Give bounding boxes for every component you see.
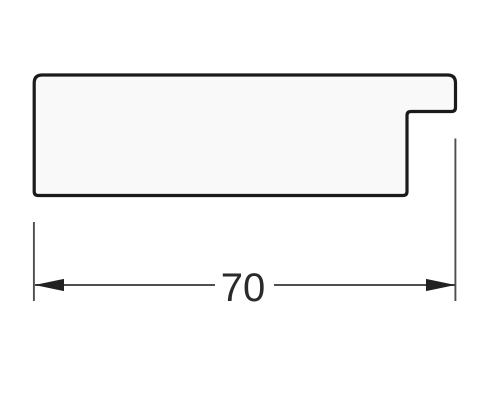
svg-text:70: 70 <box>221 266 266 310</box>
dimension line left segment <box>35 284 215 286</box>
dimension line right segment <box>274 284 455 286</box>
left extension line <box>33 222 35 301</box>
moulding profile cross-section outline <box>34 75 455 196</box>
right arrowhead <box>426 279 455 291</box>
right extension line <box>454 139 456 302</box>
left arrowhead <box>35 279 64 291</box>
